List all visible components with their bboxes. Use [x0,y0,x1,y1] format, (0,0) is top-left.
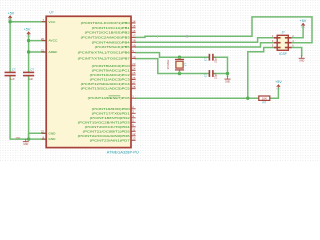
svg-text:22pF: 22pF [214,72,218,79]
wire AREF pin 21 [29,51,47,53]
wire MOSI PB3 around top to ICSP pin4 [136,17,312,43]
svg-text:14: 14 [132,19,136,23]
wire XTAL1 PB6 to crystal [136,53,209,58]
svg-text:C?: C? [203,57,207,61]
node pin 16 (PCINT2/OC1B/SS)PB2 [85,29,136,35]
svg-text:10: 10 [132,55,136,59]
node pin 23 (PCINT8/ADC0)PC0 [92,62,136,68]
svg-text:16 MHz: 16 MHz [166,59,170,70]
svg-text:AREF: AREF [48,50,57,54]
svg-text:+5V: +5V [300,19,307,23]
svg-text:C?: C? [203,73,207,77]
svg-text:(PCINT5/SCK)PB5: (PCINT5/SCK)PB5 [95,45,130,49]
svg-text:(PCINT22/OC0A/AIN0)PD6: (PCINT22/OC0A/AIN0)PD6 [78,134,130,138]
svg-text:(PCINT16/RXD)PD0: (PCINT16/RXD)PD0 [92,107,130,111]
svg-text:GND: GND [48,131,56,135]
wire resistor left lead [248,97,259,99]
svg-text:(PCINT7/XTAL2/TOSC2)PB7: (PCINT7/XTAL2/TOSC2)PB7 [78,57,130,61]
node pin 27 (PCINT12/SDA/ADC4)PC4 [81,80,136,86]
svg-text:(PCINT4/MISO)PB4: (PCINT4/MISO)PB4 [92,40,130,44]
svg-text:VCC: VCC [48,20,56,24]
node pin 21 AREF [41,48,58,54]
ground G2 crystal caps [225,76,231,83]
wire C2 top lead [28,41,30,73]
node pin 18 (PCINT4/MISO)PB4 [92,39,136,45]
node C2 labels [28,68,35,81]
svg-text:(PCINT9/ADC1)PC1: (PCINT9/ADC1)PC1 [92,68,130,72]
svg-text:(PCINT13/SCL/ADC5)PC5: (PCINT13/SCL/ADC5)PC5 [81,87,130,91]
svg-text:28: 28 [132,85,136,89]
node junction RESET at resistor [246,97,249,100]
node junction GND rail left [27,137,30,140]
svg-text:(PCINT21/OC0B/T1)PD5: (PCINT21/OC0B/T1)PD5 [83,129,130,133]
wire C1 bottom to GND pin 8 [10,76,46,140]
wire C2 bottom to GND [28,76,30,140]
node RESET overline [109,95,121,97]
power +5V P1 at VCC [8,11,15,21]
node C3 labels [203,56,217,63]
node net tick A [187,35,188,38]
svg-text:.1uF: .1uF [28,77,34,81]
wire ICSP pin6 to GND [292,48,302,56]
svg-text:GND: GND [16,137,21,139]
capacitor C3 22pF [209,54,213,61]
svg-text:(PCINT23/AIN1)PD7: (PCINT23/AIN1)PD7 [90,138,130,142]
svg-text:GND: GND [23,144,28,146]
svg-text:(PCINT6/XTAL1/TOSC1)PB6: (PCINT6/XTAL1/TOSC1)PB6 [78,51,130,55]
node J1 pin 3 [272,39,281,43]
node pin 7 VCC [42,18,57,24]
node pin 3 (PCINT17/TXD)PD1 [92,110,136,116]
node junction AVCC tap [27,39,30,42]
svg-text:19: 19 [132,43,136,47]
wire GND pin 22 [29,133,47,139]
svg-text:15: 15 [132,24,136,28]
wire RESET up to ICSP pin5 [248,48,277,99]
svg-text:+5V: +5V [8,11,15,15]
svg-text:20: 20 [41,37,45,41]
svg-text:(PCINT10/ADC2)PC2: (PCINT10/ADC2)PC2 [90,73,130,77]
power +5V P2 at AVCC [24,27,32,37]
svg-text:(PCINT2/OC1B/SS)PB2: (PCINT2/OC1B/SS)PB2 [85,31,130,35]
svg-text:Y?: Y? [184,62,188,66]
wire MISO PB4 to ICSP pin1 [136,38,278,43]
capacitor C4 22pF [209,70,213,77]
node pin 9 (PCINT6/XTAL1/TOSC1)PB6 [78,49,136,55]
node pin 15 (PCINT1/OC1A)PB1 [92,24,136,30]
capacitor C2 .1uF [23,72,34,75]
svg-text:J?: J? [281,31,285,35]
svg-text:(PCINT0/CLKO/ICP1)PB0: (PCINT0/CLKO/ICP1)PB0 [81,21,130,25]
node J1 pin 4 [285,39,294,43]
power +5V P3 at reset pullup [275,80,282,90]
node pin 24 (PCINT9/ADC1)PC1 [92,67,136,73]
svg-text:12: 12 [132,132,136,136]
svg-text:U?: U? [49,11,53,15]
svg-text:16: 16 [132,29,136,33]
wire VCC +5V rail to pin 7 [10,21,46,23]
node junction AREF tap [27,50,30,53]
svg-text:GND: GND [48,137,56,141]
svg-text:17: 17 [132,34,136,38]
svg-text:(PCINT18/INT0)PD2: (PCINT18/INT0)PD2 [90,116,130,120]
node pin 5 (PCINT19/OC2B/INT1)PD3 [78,119,136,125]
node pin 13 (PCINT23/AIN1)PD7 [90,137,136,143]
ground G3 ICSP pin6 [299,56,305,63]
svg-text:+5V: +5V [275,80,282,84]
wire SCK PB5 to ICSP pin3 [136,43,278,47]
node pin 4 (PCINT18/INT0)PD2 [90,114,136,120]
node J1 pin 5 [272,44,281,48]
svg-text:11: 11 [132,128,135,132]
node pin 25 (PCINT10/ADC2)PC2 [90,71,136,77]
svg-text:25: 25 [132,71,136,75]
svg-text:C?: C? [12,68,16,72]
svg-text:(PCINT11/ADC3)PC3: (PCINT11/ADC3)PC3 [90,78,130,82]
node pin 14 (PCINT0/CLKO/ICP1)PB0 [81,19,136,25]
ground G1 bottom left [23,139,29,146]
node net tick B [157,35,158,38]
wire resistor right lead to +5V [270,88,279,98]
svg-text:22pF: 22pF [214,56,218,63]
wire RESET PC6 [136,97,248,99]
wire C4 to GND rail [213,73,227,75]
node pin 1 (PCINT14/RESET)PC6 [88,95,136,101]
connector J1 ICSP header body [277,35,288,50]
node pin 12 (PCINT22/OC0A/AIN0)PD6 [78,132,136,138]
node junction crystal top [178,56,181,59]
svg-text:R?: R? [263,101,267,105]
svg-text:+5V: +5V [24,27,31,31]
svg-text:24: 24 [132,67,136,71]
node pin 11 (PCINT21/OC0B/T1)PD5 [83,128,136,134]
svg-text:22: 22 [41,130,45,134]
svg-text:27: 27 [132,80,136,84]
svg-text:C?: C? [30,68,34,72]
svg-text:ATMEGA328P-PU: ATMEGA328P-PU [107,151,140,155]
svg-text:18: 18 [132,39,136,43]
svg-text:(PCINT8/ADC0)PC0: (PCINT8/ADC0)PC0 [92,64,130,68]
svg-text:.1uF: .1uF [9,77,15,81]
node J1 pin 6 [285,44,294,48]
node J1 pin 2 [285,34,294,38]
svg-text:(PCINT19/OC2B/INT1)PD3: (PCINT19/OC2B/INT1)PD3 [78,120,130,124]
capacitor C1 .1uF [5,72,16,75]
node J1 pin 1 [272,34,281,38]
crystal Y1 16 MHz [175,57,184,73]
node Y1 labels [166,59,188,70]
node pin 28 (PCINT13/SCL/ADC5)PC5 [81,85,136,91]
node junction caps to GND [226,72,229,75]
node pin 17 (PCINT3/OC2A/MOSI)PB3 [81,34,136,40]
node pin 26 (PCINT11/ADC3)PC3 [90,76,136,82]
node pin 2 (PCINT16/RXD)PD0 [92,105,136,111]
svg-text:ICSP: ICSP [279,52,286,56]
node pin 22 GND [41,130,56,136]
node pin 19 (PCINT5/SCK)PB5 [95,43,136,49]
power +5V P4 at ICSP [300,19,307,29]
wire GND stub [227,74,229,77]
node pin 20 AVCC [41,37,58,43]
wire C3 to GND rail [213,57,227,73]
svg-text:13: 13 [132,137,136,141]
svg-text:(PCINT3/OC2A/MOSI)PB3: (PCINT3/OC2A/MOSI)PB3 [81,35,130,39]
resistor R1 10K [259,96,270,105]
svg-text:23: 23 [132,62,136,66]
svg-text:GND: GND [299,61,304,63]
node pin 10 (PCINT7/XTAL2/TOSC2)PB7 [78,55,136,61]
svg-text:(PCINT20/XCK/T0)PD4: (PCINT20/XCK/T0)PD4 [85,125,130,129]
svg-text:GND: GND [225,81,230,83]
svg-text:26: 26 [132,76,136,80]
node junction +5V at VCC rail [8,20,11,23]
node pin 8 GND [42,135,57,141]
svg-text:AVCC: AVCC [48,39,58,43]
wire +5V to ICSP pin2 [292,26,304,38]
svg-text:(PCINT17/TXD)PD1: (PCINT17/TXD)PD1 [92,111,130,115]
svg-text:21: 21 [41,48,45,52]
svg-text:(PCINT14/RESET)PC6: (PCINT14/RESET)PC6 [88,96,130,100]
mcu U1 ATMEGA328P-PU body [46,16,131,147]
svg-text:(PCINT1/OC1A)PB1: (PCINT1/OC1A)PB1 [92,26,130,30]
wire +5V stub and C1 top lead [9,18,11,73]
svg-text:(PCINT12/SDA/ADC4)PC4: (PCINT12/SDA/ADC4)PC4 [81,82,130,86]
node junction crystal bottom [178,72,181,75]
node C1 labels [9,68,16,81]
node pin 6 (PCINT20/XCK/T0)PD4 [85,123,136,129]
wire +5V to AVCC pin 20 [29,35,47,41]
node C4 labels [203,72,217,79]
wire XTAL2 PB7 to crystal [136,59,209,74]
